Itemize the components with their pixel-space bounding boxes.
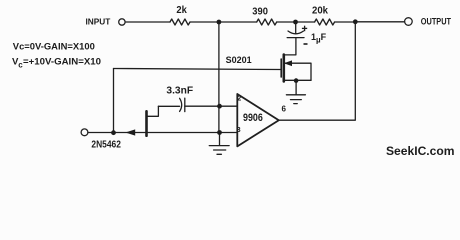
wire: feedback vertical node A down to op-amp inputs <box>218 22 220 133</box>
Q1 body arrowhead <box>285 61 292 66</box>
Q1 source node junction dot <box>294 78 299 83</box>
resistor R3 20k <box>315 19 335 25</box>
label + of C1 <box>302 26 307 32</box>
Q2 gate arrowhead <box>127 130 135 135</box>
wire: Q2 drain to C2 <box>158 105 179 107</box>
node D junction dot <box>111 130 116 135</box>
node F junction dot <box>217 104 222 109</box>
svg-text:2: 2 <box>237 93 241 102</box>
wire: node C to output terminal <box>355 21 404 23</box>
svg-text:Vc=0V-GAIN=X100: Vc=0V-GAIN=X100 <box>13 42 95 53</box>
capacitor C2 3.3nF curved plate <box>180 98 182 111</box>
wire: output vertical node C down to op-amp output pin 6 <box>279 22 356 120</box>
node B junction dot <box>293 20 298 25</box>
ground G2 stem under node E <box>219 133 221 146</box>
svg-text:9906: 9906 <box>243 112 263 124</box>
svg-text:S0201: S0201 <box>226 55 252 65</box>
resistor R1 2k <box>170 19 190 25</box>
wire: R2 to node B <box>277 21 296 23</box>
ground G2 bars <box>209 145 229 147</box>
transistor Q1 S0201 channel bar <box>282 55 285 82</box>
svg-text:3: 3 <box>237 125 241 134</box>
wire: C2 to node F <box>185 105 219 107</box>
wire: control terminal to node D <box>88 132 114 134</box>
op-amp U1 9906 triangle <box>237 94 278 146</box>
node A junction dot <box>217 20 222 25</box>
transistor Q2 drain lead <box>148 106 159 116</box>
svg-text:SeekIC.com: SeekIC.com <box>386 144 455 158</box>
capacitor C1 1uF top lead <box>295 22 297 33</box>
node E junction dot <box>217 130 222 135</box>
transistor Q1 gate wire from node D <box>114 69 282 70</box>
svg-text:6: 6 <box>282 104 287 113</box>
wire: input terminal to R1 <box>125 21 170 23</box>
wire: node B to R3 <box>296 21 315 23</box>
transistor Q1 source lead <box>284 79 311 81</box>
control terminal circle <box>81 129 88 136</box>
svg-text:INPUT: INPUT <box>86 16 112 26</box>
transistor Q1 source to ground stem <box>295 80 297 94</box>
transistor Q2 source wire to node E <box>148 132 219 134</box>
wire: node F to op-amp pin 2 <box>219 105 237 107</box>
node C junction dot <box>353 19 358 24</box>
ground G1 under Q1 <box>286 94 305 96</box>
svg-text:2N5462: 2N5462 <box>91 140 121 151</box>
capacitor C1 1uF bottom lead to Q1 drain <box>284 38 296 55</box>
input terminal circle <box>119 19 125 25</box>
capacitor C1 1uF straight plate <box>287 37 304 39</box>
svg-text:OUTPUT: OUTPUT <box>421 17 452 27</box>
output terminal circle <box>405 18 413 26</box>
wire: node E to op-amp pin 3 <box>219 132 237 134</box>
label - of C1 <box>304 43 308 45</box>
svg-text:2k: 2k <box>176 5 187 16</box>
transistor Q1 body lead and loop to source <box>285 63 311 80</box>
svg-text:3.3nF: 3.3nF <box>166 85 193 96</box>
transistor Q2 2N5462 gate wire with arrow <box>114 132 146 134</box>
svg-text:20k: 20k <box>312 6 328 17</box>
svg-text:390: 390 <box>252 7 268 18</box>
capacitor C1 1uF curved plate <box>288 31 304 34</box>
transistor Q2 2N5462 channel bar <box>145 111 148 135</box>
transistor Q1 gate bar <box>280 59 282 77</box>
resistor R2 390 <box>257 19 277 25</box>
svg-text:=+10V-GAIN=X10: =+10V-GAIN=X10 <box>23 56 101 67</box>
wire: node D up to Q1 gate line <box>113 69 115 133</box>
capacitor C2 3.3nF straight plate <box>184 98 186 111</box>
wire: node A to R2 <box>219 21 257 23</box>
wire: R1 to node A <box>190 21 219 23</box>
wire: R3 to node C <box>335 21 356 23</box>
